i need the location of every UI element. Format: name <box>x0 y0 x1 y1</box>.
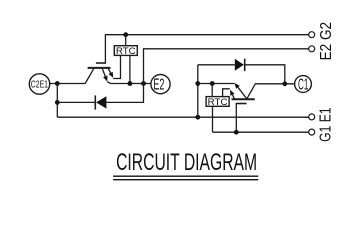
terminal E2 aux <box>309 46 315 52</box>
terminal C1 <box>295 76 312 94</box>
svg-text:C1: C1 <box>298 77 308 94</box>
arrow RTC U1 into Q1 <box>230 90 235 99</box>
node gate2/RTC junction <box>123 32 128 37</box>
wire G2 gate rail <box>105 35 308 63</box>
terminal E1 aux <box>309 114 315 120</box>
terminal E2 <box>151 75 170 94</box>
wire C1 rail <box>255 83 295 85</box>
wire bottom rail C2E1-E1 <box>57 116 308 118</box>
terminal G1 <box>309 129 315 135</box>
IGBT Q1 gate bar <box>236 103 247 105</box>
diode D1 <box>235 59 245 72</box>
svg-text:CIRCUIT DIAGRAM: CIRCUIT DIAGRAM <box>116 150 257 176</box>
IGBT Q1 body bar <box>232 98 255 100</box>
wire RTC U1 top pin <box>211 84 213 97</box>
RTC block U1 <box>206 97 229 107</box>
node C2E1/diode junction <box>55 81 60 86</box>
wire E2 aux rail <box>144 49 309 84</box>
IGBT Q1 collector lead <box>247 84 256 99</box>
wire RTC U2 left output <box>113 55 120 78</box>
node E2aux/diode junction <box>141 81 146 86</box>
wire Q1 emitter riser <box>197 65 199 117</box>
wire E1 aux stub <box>305 116 309 118</box>
svg-text:RTC: RTC <box>208 97 228 107</box>
IGBT Q2 gate bar <box>96 62 106 64</box>
node diode D2 anode junction <box>55 100 60 105</box>
svg-text:RTC: RTC <box>116 46 136 56</box>
svg-text:C2E1: C2E1 <box>31 80 48 91</box>
node bottom rail / Q1 emitter <box>195 115 200 120</box>
node G1 gate junction <box>234 130 239 135</box>
wire Q1 emitter rail <box>198 83 235 85</box>
node RTC U1 emitter junction <box>210 81 215 86</box>
wire RTC U2 top pin <box>125 35 127 46</box>
svg-text:G1 E1: G1 E1 <box>317 107 334 142</box>
wire diode D1 cathode lead <box>245 65 285 84</box>
terminal G2 <box>309 32 315 38</box>
wire C2E1 to Q2 collector <box>50 83 85 85</box>
wire Q1 gate lead <box>235 104 237 133</box>
node RTC2 emitter junction <box>127 81 132 86</box>
svg-text:E2: E2 <box>153 77 164 94</box>
terminal C2E1 <box>29 74 49 94</box>
node C1 junction <box>282 81 287 86</box>
wire RTC U1 gate-side shaft <box>223 89 230 97</box>
wire diode D1 anode lead <box>198 64 235 66</box>
node Q1 emitter wire junction <box>195 81 200 86</box>
IGBT Q2 collector lead <box>85 68 94 83</box>
wire C2E1 down leg <box>56 84 58 118</box>
wire diode D2 cathode lead <box>57 101 95 103</box>
RTC block U2 <box>114 46 137 56</box>
wire RTC U1 bottom pin <box>212 106 214 132</box>
diode D2 <box>95 95 106 109</box>
wire RTC U2 right output <box>129 55 131 83</box>
wire G1 rail <box>213 131 309 133</box>
wire diode D2 anode lead <box>106 84 143 103</box>
IGBT Q2 body bar <box>88 67 111 69</box>
arrow RTC U2 into Q2 <box>108 68 113 78</box>
IGBT Q2 emitter lead <box>102 68 110 83</box>
wire E2 emitter rail <box>111 83 151 85</box>
svg-text:E2 G2: E2 G2 <box>318 22 335 61</box>
IGBT Q1 emitter lead <box>234 83 246 99</box>
title underline <box>113 176 258 180</box>
